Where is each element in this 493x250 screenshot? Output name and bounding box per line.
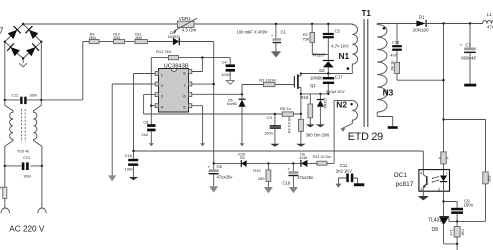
capacitor C3 [274, 114, 276, 125]
svg-text:2M4: 2M4 [113, 36, 120, 40]
svg-text:C3: C3 [267, 115, 273, 120]
wire D6 to R13 [307, 162, 317, 164]
svg-text:660mkF: 660mkF [461, 55, 477, 60]
wire N3 bottom return [377, 112, 393, 126]
svg-text:bzv85: bzv85 [227, 102, 237, 106]
svg-text:360 Om 2Wt: 360 Om 2Wt [306, 132, 330, 137]
bridge diode bottom-left [11, 47, 21, 56]
svg-text:C13: C13 [23, 156, 30, 160]
wire D4 to VCC column [179, 42, 213, 164]
svg-text:R8 1K: R8 1K [391, 60, 395, 71]
ground rail [134, 151, 424, 170]
resistor R16 [456, 221, 458, 226]
wire divider tap [444, 120, 486, 172]
svg-text:1: 1 [446, 172, 448, 176]
svg-text:C2: C2 [335, 28, 341, 33]
svg-text:C1: C1 [281, 29, 287, 34]
resistor R10 [114, 39, 125, 43]
opto LED [443, 170, 445, 176]
svg-text:C18: C18 [392, 39, 400, 44]
diode D4 1N4937 [173, 38, 179, 46]
svg-text:2K4: 2K4 [461, 229, 465, 235]
wire R12 right to C4 [178, 58, 230, 65]
svg-text:C12: C12 [12, 93, 19, 97]
node C12 right [40, 99, 42, 101]
U1 pin 5 [189, 104, 192, 108]
svg-text:4,7n 1KV: 4,7n 1KV [331, 43, 348, 48]
resistor R2 [311, 23, 313, 25]
node bridge left [4, 41, 6, 43]
node bridge right [40, 41, 42, 43]
resistor R18 [309, 94, 311, 104]
svg-text:N2: N2 [336, 100, 347, 110]
svg-text:2n2 1KV: 2n2 1KV [336, 169, 352, 174]
svg-text:100n: 100n [221, 72, 230, 77]
svg-text:1N4937: 1N4937 [168, 35, 181, 39]
svg-text:T1: T1 [362, 9, 372, 18]
svg-text:R3 10Om: R3 10Om [259, 78, 277, 83]
resistor R4 current sense [300, 113, 302, 115]
svg-text:18N60: 18N60 [310, 75, 323, 80]
svg-text:C17: C17 [335, 75, 343, 80]
svg-text:R11 10 Om: R11 10 Om [313, 155, 331, 159]
TL431 D8 [443, 202, 445, 217]
capacitor C11 Y-cap [338, 178, 357, 184]
svg-text:R4 0.5 Om: R4 0.5 Om [288, 116, 292, 133]
zener D7 [319, 94, 321, 99]
svg-text:C16: C16 [125, 153, 133, 158]
ground under opto emitter [422, 191, 424, 196]
svg-text:VDR1: VDR1 [179, 16, 192, 21]
svg-text:+: + [271, 33, 274, 38]
wire to bottom edge [456, 244, 458, 250]
wire left AC leg upper [4, 42, 6, 100]
bridge diode top-right [29, 30, 38, 39]
wire pin1 to ground rail [134, 74, 156, 152]
snubber resistor R8 [396, 51, 398, 63]
U1 pin 4 [155, 104, 158, 108]
chassis bar N3 return [388, 126, 398, 129]
svg-text:7: 7 [0, 27, 4, 36]
wire drain node [301, 73, 352, 75]
svg-text:FR207: FR207 [324, 98, 328, 109]
node C12 left [4, 99, 6, 101]
svg-text:2n2: 2n2 [142, 132, 149, 137]
node pin4/R12 [150, 105, 152, 107]
node bridge bottom [22, 57, 24, 59]
choke right winding [34, 100, 42, 166]
U1 pin 1 [155, 72, 158, 76]
node bridge top [22, 23, 24, 25]
svg-text:Q1: Q1 [310, 83, 316, 88]
svg-text:471: 471 [449, 230, 453, 236]
svg-text:R19: R19 [253, 168, 261, 173]
opto phototransistor [426, 176, 428, 185]
svg-text:75K: 75K [302, 37, 309, 42]
capacitor C4 [226, 64, 235, 67]
transistor Q1 18N60 [293, 76, 295, 87]
wire pin7 to VCC column [192, 83, 214, 85]
U1 pin 8 [189, 70, 192, 74]
svg-text:D1: D1 [419, 15, 425, 20]
inductor L1 [483, 20, 493, 23]
svg-text:TL431: TL431 [428, 218, 442, 224]
svg-text:100n: 100n [29, 93, 37, 97]
resistor R11 [135, 39, 147, 43]
wire after D1 [426, 23, 483, 25]
ground under C4 [229, 72, 231, 81]
AC terminal right [38, 208, 46, 213]
wire TL431 ref [449, 217, 457, 221]
svg-text:R5 1o: R5 1o [280, 106, 291, 111]
optocoupler OC1 pc817 [419, 170, 450, 192]
node C13 right [41, 165, 43, 167]
svg-text:C8: C8 [143, 120, 149, 125]
capacitor C17 [327, 74, 329, 78]
wire right AC leg upper [40, 42, 42, 100]
IC U1 UC3843B body [159, 69, 189, 113]
svg-text:2M4: 2M4 [135, 36, 142, 40]
capacitor C1 electrolytic [275, 23, 277, 25]
resistor R7 divider upper [483, 172, 488, 184]
svg-text:OC1: OC1 [394, 172, 408, 179]
capacitor C5 electrolytic [213, 163, 215, 186]
svg-text:20N100: 20N100 [413, 28, 429, 33]
wire pin2 feedback arrow [112, 84, 155, 175]
wire pin5 ground [192, 106, 203, 144]
svg-text:R12 7k5: R12 7k5 [156, 49, 172, 54]
wire [125, 41, 136, 43]
svg-text:D6: D6 [240, 156, 245, 160]
svg-text:ETD 29: ETD 29 [348, 131, 383, 143]
capacitor C16 [133, 151, 135, 159]
varistor VDR1 [177, 21, 194, 27]
capacitor C19 electrolytic [292, 162, 294, 164]
resistor R12 [168, 55, 178, 59]
svg-text:250: 250 [258, 176, 265, 181]
svg-text:4.3 Om: 4.3 Om [182, 28, 197, 33]
U1 pin 7 [189, 82, 192, 86]
wire to startup resistor chain [41, 42, 89, 100]
winding N1 [352, 24, 357, 74]
svg-text:100n: 100n [264, 131, 273, 136]
feedback supply column [443, 24, 445, 152]
wire pin6 [192, 93, 242, 95]
svg-text:Tr10 40: Tr10 40 [17, 150, 29, 154]
capacitor C12 [5, 99, 42, 101]
zener D5 [241, 94, 243, 99]
opto light arrows [434, 177, 439, 182]
capacitor C7 electrolytic [469, 24, 471, 84]
svg-text:C4: C4 [222, 59, 228, 64]
svg-text:100 mkF X 400V: 100 mkF X 400V [237, 29, 268, 34]
wire [147, 41, 173, 43]
choke left winding [5, 100, 13, 166]
svg-text:2M4: 2M4 [89, 36, 96, 40]
wire top rail primary [23, 23, 352, 25]
wire pin6 riser to R3 [242, 85, 264, 95]
capacitor C9 [456, 202, 458, 208]
resistor R5 [282, 112, 293, 116]
wire source node [301, 93, 328, 95]
ground arrow N2 [341, 128, 346, 131]
svg-text:100n: 100n [125, 166, 134, 171]
capacitor C8 [150, 106, 152, 125]
ground under bridge [19, 59, 27, 67]
svg-text:47ux25v: 47ux25v [297, 175, 314, 180]
bridge rectifier diamond wires [5, 24, 42, 59]
wire right leg lower [41, 166, 43, 208]
svg-text:4: 4 [420, 172, 422, 176]
node R12/pin8 [201, 56, 203, 58]
svg-text:2: 2 [438, 188, 440, 192]
bridge diode top-left [8, 30, 17, 39]
U1 pin 6 [189, 93, 192, 97]
node C13 left [4, 165, 6, 167]
wire pin4 [151, 105, 155, 107]
wire secondary top rail [377, 23, 416, 25]
resistor R19 [267, 162, 269, 164]
wire [99, 41, 114, 43]
svg-text:N3: N3 [383, 88, 394, 98]
winding N2 [343, 101, 358, 129]
diode D2 FR207 [323, 60, 334, 62]
wire opto pin2 node [444, 191, 458, 201]
winding N3 [377, 24, 387, 113]
svg-text:C5: C5 [217, 164, 223, 169]
wire pin8 riser [192, 58, 203, 72]
diode D1 20N100 [416, 21, 425, 27]
resistor R6 [441, 152, 446, 164]
wire R3 to gate [275, 84, 294, 86]
resistor R3 [264, 82, 276, 86]
ground bar C7 [464, 84, 476, 87]
svg-text:FR207: FR207 [313, 53, 326, 58]
svg-text:3: 3 [420, 188, 422, 192]
fuse [3, 187, 7, 198]
svg-text:R18: R18 [301, 95, 309, 100]
svg-text:47ux25v: 47ux25v [217, 175, 234, 180]
VCC rail [214, 162, 301, 164]
U1 pin 3 [155, 93, 158, 97]
wire left leg lower [4, 166, 6, 187]
svg-text:L1: L1 [487, 12, 493, 17]
svg-text:+: + [460, 42, 463, 47]
svg-text:4148: 4148 [299, 156, 307, 160]
svg-text:D2: D2 [319, 68, 325, 73]
svg-text:100n: 100n [23, 175, 31, 179]
svg-text:C7: C7 [465, 42, 471, 47]
svg-text:3K9: 3K9 [488, 176, 492, 182]
resistor R13 10 Om [317, 161, 327, 165]
svg-text:C11: C11 [340, 163, 348, 168]
capacitor C2 [327, 23, 329, 25]
AC terminal left [1, 208, 10, 213]
diode D3 on VCC rail [240, 160, 242, 167]
choke core dashed [22, 109, 26, 142]
snubber C18 [396, 24, 398, 46]
svg-text:N1: N1 [339, 51, 350, 61]
svg-text:C19: C19 [283, 180, 291, 185]
svg-text:100n: 100n [464, 203, 474, 208]
svg-text:pc817: pc817 [396, 181, 414, 188]
diode D6 [300, 160, 302, 167]
wire to N2 winding [327, 101, 352, 164]
svg-text:AC 220 V: AC 220 V [9, 225, 45, 234]
U1 pin 2 [155, 82, 158, 86]
svg-text:47u: 47u [487, 25, 493, 30]
svg-text:+: + [287, 166, 290, 171]
bridge diode bottom-right [26, 47, 35, 56]
wire R12 left to pin4 column [151, 58, 168, 106]
svg-text:UC3843B: UC3843B [164, 63, 189, 69]
svg-text:+: + [208, 165, 211, 170]
wire fuse to terminal [4, 199, 6, 208]
resistor R9 [89, 39, 99, 43]
transformer T1 core [364, 19, 368, 127]
svg-text:D8: D8 [432, 227, 439, 233]
wire pin3 current sense line [144, 95, 275, 114]
